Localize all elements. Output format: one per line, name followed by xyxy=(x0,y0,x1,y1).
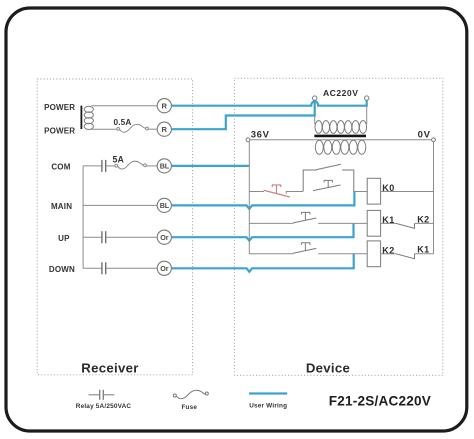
wire K2 row to 0V bus xyxy=(415,253,434,255)
wire K0 row from bus xyxy=(249,191,264,193)
svg-text:POWER: POWER xyxy=(44,103,75,112)
svg-text:Or: Or xyxy=(160,233,168,242)
terminal Or1 (UP) xyxy=(157,230,171,244)
pushbutton switch S2 blade xyxy=(293,248,316,253)
wire DOWN row right xyxy=(106,267,157,269)
svg-text:MAIN: MAIN xyxy=(51,202,72,211)
terminal R2 (POWER2) xyxy=(157,122,171,136)
terminal node AC-L xyxy=(313,96,317,100)
wire K2 coil to interlock xyxy=(381,253,397,255)
wire COM row left xyxy=(83,165,101,167)
wire K0 row mid xyxy=(286,192,303,194)
svg-text:AC220V: AC220V xyxy=(323,88,358,98)
wire 36V bus vertical xyxy=(248,141,250,254)
wire K2 row from bus xyxy=(249,253,293,255)
relay contact K-COM (plates) xyxy=(102,160,106,172)
svg-text:0V: 0V xyxy=(418,129,431,140)
limit switch upper branch left leg xyxy=(303,170,316,191)
user wire blue POWER2 to AC terminal left xyxy=(172,100,315,129)
relay coil K1 xyxy=(367,210,380,236)
wire POWER2 row right xyxy=(148,128,157,130)
limit switch blade (upper) xyxy=(316,164,341,170)
svg-text:5A: 5A xyxy=(112,155,124,165)
user wire blue POWER1 to AC terminal right xyxy=(172,100,367,105)
svg-text:F21-2S/AC220V: F21-2S/AC220V xyxy=(329,393,431,408)
wire MAIN row xyxy=(83,204,157,206)
terminal Or2 (DOWN) xyxy=(157,261,171,275)
svg-text:POWER: POWER xyxy=(44,126,75,135)
svg-text:36V: 36V xyxy=(251,129,270,140)
receiver enclosure dashed box xyxy=(37,79,192,375)
svg-text:R: R xyxy=(162,102,168,111)
legend user wiring sample xyxy=(249,392,287,394)
user wire blue UP to K1 node xyxy=(172,223,354,240)
pushbutton switch S0 actuator xyxy=(324,180,333,187)
wire K0 row to coil xyxy=(355,191,367,193)
wire COM row right xyxy=(146,165,157,167)
wire secondary rail 36V-0V xyxy=(250,139,432,141)
transformer T1 core xyxy=(314,135,366,138)
emergency stop switch (red) blade xyxy=(264,190,290,197)
wire K1 row from bus xyxy=(249,222,293,224)
svg-text:Or: Or xyxy=(160,264,168,273)
pushbutton switch S2 actuator xyxy=(301,243,310,251)
wire POWER2 row left xyxy=(92,128,117,130)
svg-text:Device: Device xyxy=(306,360,350,375)
wire 0V bus vertical xyxy=(433,142,435,254)
wire AC-L lead down to primary xyxy=(314,116,316,125)
wire DOWN row left xyxy=(83,267,101,269)
svg-text:BL: BL xyxy=(160,201,170,210)
terminal node AC-N xyxy=(365,96,369,100)
receiver left bus wire xyxy=(82,166,84,268)
svg-text:Relay 5A/250VAC: Relay 5A/250VAC xyxy=(76,403,132,410)
terminal BL1 (COM) xyxy=(157,159,171,173)
wire UP row left xyxy=(83,236,101,238)
wire AC-N lead down to primary xyxy=(366,106,368,124)
legend fuse symbol xyxy=(173,390,208,398)
user wire blue DOWN to K2 node xyxy=(172,254,354,272)
receiver input coil L1 xyxy=(84,106,93,129)
wire UP row right xyxy=(106,236,157,238)
relay contact K-DOWN (plates) xyxy=(102,262,106,274)
wire K1 coil to interlock xyxy=(381,222,397,224)
wire K1 row to 0V bus xyxy=(415,222,434,224)
interlock contact K2 (NC) blade xyxy=(396,223,415,228)
wire K2 row to coil xyxy=(318,253,367,255)
wire COM row mid xyxy=(106,165,115,167)
terminal R1 (POWER1) xyxy=(157,99,171,113)
emergency stop switch (red) actuator xyxy=(272,185,281,193)
user wire blue MAIN to K0 node xyxy=(172,191,355,209)
fuse F1 0.5A xyxy=(117,124,149,132)
wire K1 row to coil xyxy=(318,222,367,224)
wire K0 coil to 0V bus xyxy=(381,191,434,193)
user wire blue COM to 36V bus xyxy=(172,165,250,167)
svg-text:0.5A: 0.5A xyxy=(113,118,131,127)
limit switch upper branch right leg xyxy=(342,170,354,191)
svg-text:K2: K2 xyxy=(417,214,429,224)
svg-text:UP: UP xyxy=(58,234,70,243)
device enclosure dashed box xyxy=(234,78,442,375)
svg-text:Fuse: Fuse xyxy=(181,404,197,411)
pushbutton switch S0 blade xyxy=(313,185,341,191)
svg-text:BL: BL xyxy=(160,162,170,171)
transformer T1 primary winding xyxy=(315,121,367,134)
antenna core bar of receiver input coil xyxy=(81,106,83,129)
terminal node 36V xyxy=(246,138,250,142)
legend relay contact symbol xyxy=(89,390,115,400)
svg-text:User Wiring: User Wiring xyxy=(249,403,287,410)
relay coil K0 xyxy=(367,178,380,204)
terminal BL2 (MAIN) xyxy=(157,198,171,212)
pushbutton switch S1 actuator xyxy=(301,212,310,220)
terminal node 0V xyxy=(432,138,436,142)
wire POWER1 row xyxy=(92,105,158,107)
fuse F2 5A xyxy=(115,161,147,169)
svg-text:Receiver: Receiver xyxy=(81,361,138,376)
svg-text:K1: K1 xyxy=(417,245,429,255)
svg-text:R: R xyxy=(162,125,168,134)
svg-text:COM: COM xyxy=(51,163,70,172)
svg-text:DOWN: DOWN xyxy=(49,265,75,274)
relay contact K-UP (plates) xyxy=(102,231,106,243)
interlock contact K1 (NC) blade xyxy=(396,254,415,259)
relay coil K2 xyxy=(367,241,380,267)
pushbutton switch S1 blade xyxy=(293,218,316,223)
transformer T1 secondary winding xyxy=(315,140,366,154)
